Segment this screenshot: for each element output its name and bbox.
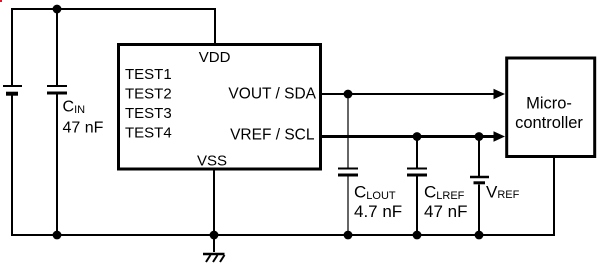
svg-text:4.7 nF: 4.7 nF: [354, 202, 402, 221]
wire: bottom ground rail: [11, 234, 555, 236]
wire: CIN top stem: [56, 9, 58, 86]
microcontroller U2 box: [507, 58, 595, 157]
arrowhead into microcontroller (SDA): [494, 89, 506, 99]
wire: VSS drop to ground rail: [213, 168, 215, 235]
red crop artifact top-left: [0, 0, 2, 2]
svg-text:TEST2: TEST2: [125, 86, 172, 103]
label CLOUT value: [354, 183, 402, 222]
label CLREF value: [424, 183, 467, 222]
svg-text:TEST1: TEST1: [125, 66, 172, 83]
IC U1 box: [119, 45, 321, 170]
capacitor CIN: [47, 86, 67, 93]
wire: VREF source top stem: [478, 137, 480, 177]
wire: top supply rail from battery to VDD: [11, 8, 216, 10]
capacitor CLREF: [407, 169, 427, 176]
svg-text:47 nF: 47 nF: [63, 119, 104, 136]
svg-text:TEST4: TEST4: [125, 125, 172, 142]
wire: CIN bottom stem: [56, 95, 58, 237]
svg-text:VDD: VDD: [199, 49, 231, 66]
svg-text:TEST3: TEST3: [125, 105, 172, 122]
svg-text:VSS: VSS: [197, 153, 227, 170]
arrowhead into microcontroller (SCL): [494, 131, 506, 141]
node: CLREF / ground rail: [413, 231, 422, 240]
wire: VREF source bottom stem: [478, 185, 480, 236]
ground symbol: [203, 235, 225, 262]
node: VREF / ground rail: [475, 231, 484, 240]
node: CLOUT / ground rail: [344, 231, 353, 240]
wire: CLREF bottom stem: [416, 177, 418, 236]
svg-text:VOUT / SDA: VOUT / SDA: [228, 86, 316, 103]
label CIN value: [63, 99, 104, 137]
wire: VOUT/SDA line: [322, 93, 496, 95]
node: SCL / CLREF junction: [413, 132, 422, 141]
wire: battery - down to ground rail: [11, 96, 13, 237]
node: junction top rail / CIN: [53, 5, 62, 14]
voltage source VREF (cell): [470, 177, 489, 183]
node: CIN / ground rail: [53, 231, 62, 240]
svg-text:Micro-: Micro-: [526, 94, 572, 112]
wire: microcontroller ground drop: [553, 157, 555, 236]
wire: CLREF top stem: [416, 137, 418, 168]
label microcontroller: [515, 94, 583, 132]
wire: VDD drop into IC: [214, 9, 216, 44]
node: SCL / VREF source junction: [475, 132, 484, 141]
svg-text:controller: controller: [515, 114, 583, 132]
wire: CLOUT top stem: [347, 94, 349, 168]
svg-text:VREF / SCL: VREF / SCL: [230, 127, 315, 144]
battery B1 (supply cell): [3, 86, 22, 94]
wire: VREF/SCL line: [322, 135, 496, 138]
svg-text:47 nF: 47 nF: [424, 202, 467, 221]
node: ground junction: [210, 231, 219, 240]
wire: left vertical to battery +: [11, 8, 13, 86]
node: SDA / CLOUT junction: [344, 90, 353, 99]
wire: CLOUT bottom stem: [347, 177, 349, 236]
capacitor CLOUT: [338, 169, 358, 176]
